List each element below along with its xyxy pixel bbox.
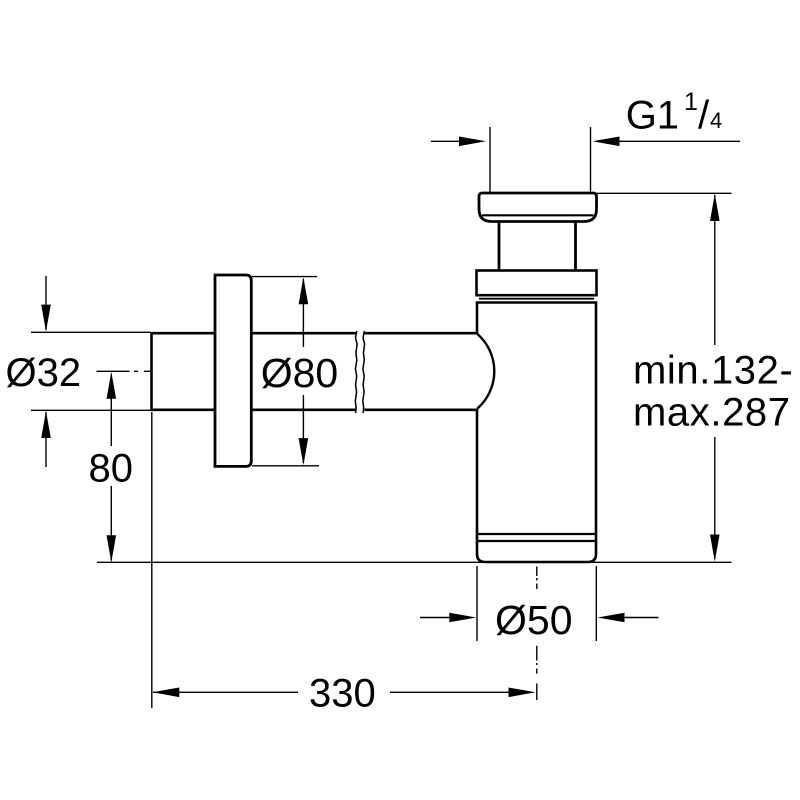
svg-text:80: 80 <box>89 447 134 491</box>
svg-text:/: / <box>698 94 710 138</box>
svg-text:max.287: max.287 <box>633 391 791 435</box>
svg-text:Ø80: Ø80 <box>261 350 339 396</box>
svg-text:1: 1 <box>684 88 698 116</box>
svg-text:Ø50: Ø50 <box>495 597 573 643</box>
svg-text:G1: G1 <box>626 94 679 138</box>
svg-text:330: 330 <box>309 672 376 716</box>
svg-text:4: 4 <box>710 108 722 133</box>
svg-text:min.132-: min.132- <box>633 349 793 393</box>
svg-text:Ø32: Ø32 <box>6 351 82 395</box>
